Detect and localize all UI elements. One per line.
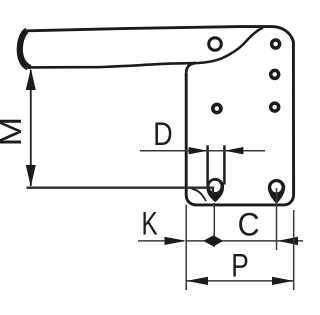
extension line plate left down (185, 205, 187, 290)
svg-text:K: K (141, 207, 157, 243)
foot inner corner curve (192, 189, 207, 201)
M dimension line (30, 70, 32, 186)
mid-left small hole (213, 104, 221, 112)
diagonal inner contour (196, 28, 263, 63)
D dimension line (140, 150, 265, 152)
right column hole 1 (272, 40, 280, 48)
K arrow (165, 237, 187, 245)
svg-text:M: M (0, 117, 27, 146)
right column hole 3 (271, 103, 279, 111)
slot bottom white center (209, 181, 220, 192)
hole center line right hole (276, 188, 278, 250)
right bottom hole white center (271, 182, 281, 192)
slot bottom point (206, 187, 224, 203)
slot side lines (206, 145, 209, 184)
P arrow left (186, 277, 208, 285)
slot center stub (212, 188, 214, 195)
D arrow left-pointing (225, 147, 244, 154)
handle bottom edge (28, 63, 196, 67)
M arrow up (26, 68, 36, 90)
P arrow right (272, 277, 294, 285)
C dimension line (186, 240, 303, 242)
M arrow down (26, 165, 36, 187)
svg-text:C: C (238, 207, 260, 243)
handle top edge left part thicker join (20, 31, 28, 68)
big hole top of plate (209, 38, 222, 51)
handle cap bottom blob (21, 53, 31, 67)
KC diamond (203, 235, 223, 246)
P dimension line (186, 280, 294, 282)
K dimension line (138, 240, 184, 242)
M reference line bottom (27, 188, 214, 195)
right bottom hole point (268, 188, 285, 204)
fillet plate left edge to handle bottom (186, 63, 196, 73)
extension line plate right down (293, 210, 295, 290)
right column hole 2 (271, 70, 279, 78)
clamp body outer outline (27, 27, 294, 205)
D arrow right-pointing (189, 147, 208, 154)
svg-text:D: D (153, 117, 172, 153)
C arrow (278, 237, 299, 245)
right bottom hole (268, 179, 285, 196)
slot bottom circle (206, 178, 224, 196)
svg-text:P: P (231, 249, 249, 284)
